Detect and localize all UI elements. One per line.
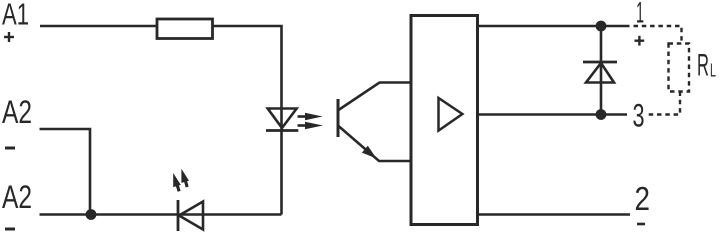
svg-text:A1: A1 <box>2 0 29 32</box>
svg-text:1: 1 <box>636 0 644 30</box>
svg-text:A2: A2 <box>2 94 32 130</box>
svg-text:A2: A2 <box>2 179 32 215</box>
svg-text:2: 2 <box>635 180 651 217</box>
svg-text:3: 3 <box>633 98 645 134</box>
svg-text:L: L <box>710 61 716 81</box>
svg-text:R: R <box>697 47 709 83</box>
